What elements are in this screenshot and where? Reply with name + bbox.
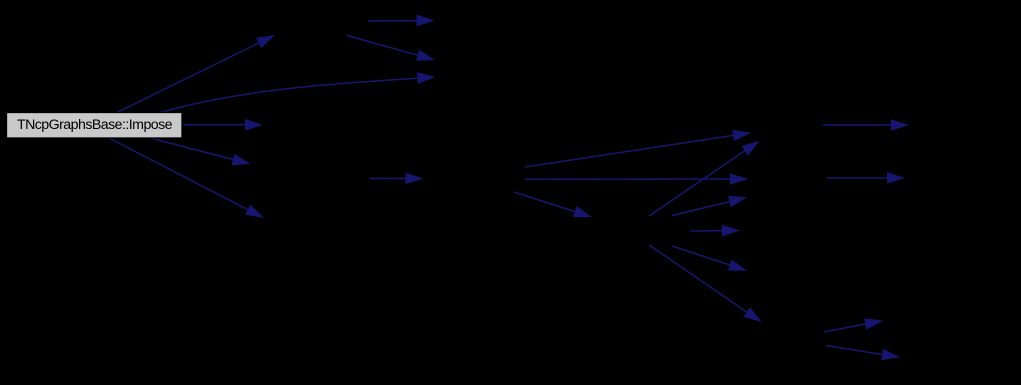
edge E1 box to node r1 xyxy=(117,35,275,112)
edge E2 box to node r4 curved xyxy=(160,72,436,112)
edge E9 node B to D1 xyxy=(525,130,751,167)
node TNcpGraphsBase::Impose xyxy=(7,113,183,139)
edge E20 E to G2 xyxy=(826,346,900,361)
edge E19 E to G1 xyxy=(824,318,883,332)
edge E11 node B to C xyxy=(514,192,592,217)
edge E18 D2 to F2 xyxy=(827,172,905,184)
edge E8 into node B xyxy=(370,173,424,185)
edge E6 node r1 to n2 xyxy=(368,15,435,27)
edge E16 node C to E xyxy=(649,245,762,322)
edge E5 box to node r7 xyxy=(109,138,264,218)
edge E3 box to node r5 xyxy=(183,119,263,131)
edge E13 node C out2 xyxy=(672,196,747,216)
edge E14 node C out3 xyxy=(691,225,740,237)
edge E15 node C out4 xyxy=(672,246,747,271)
edge E12 node C up xyxy=(649,141,760,216)
edge E10 node B to D2 xyxy=(525,173,748,185)
edge E4 box to node r6 xyxy=(150,138,250,165)
edge E17 D1 to F1 xyxy=(823,119,909,131)
svg-text:TNcpGraphsBase::Impose: TNcpGraphsBase::Impose xyxy=(17,117,173,133)
edge E7 node r1 to n3 xyxy=(347,36,435,61)
